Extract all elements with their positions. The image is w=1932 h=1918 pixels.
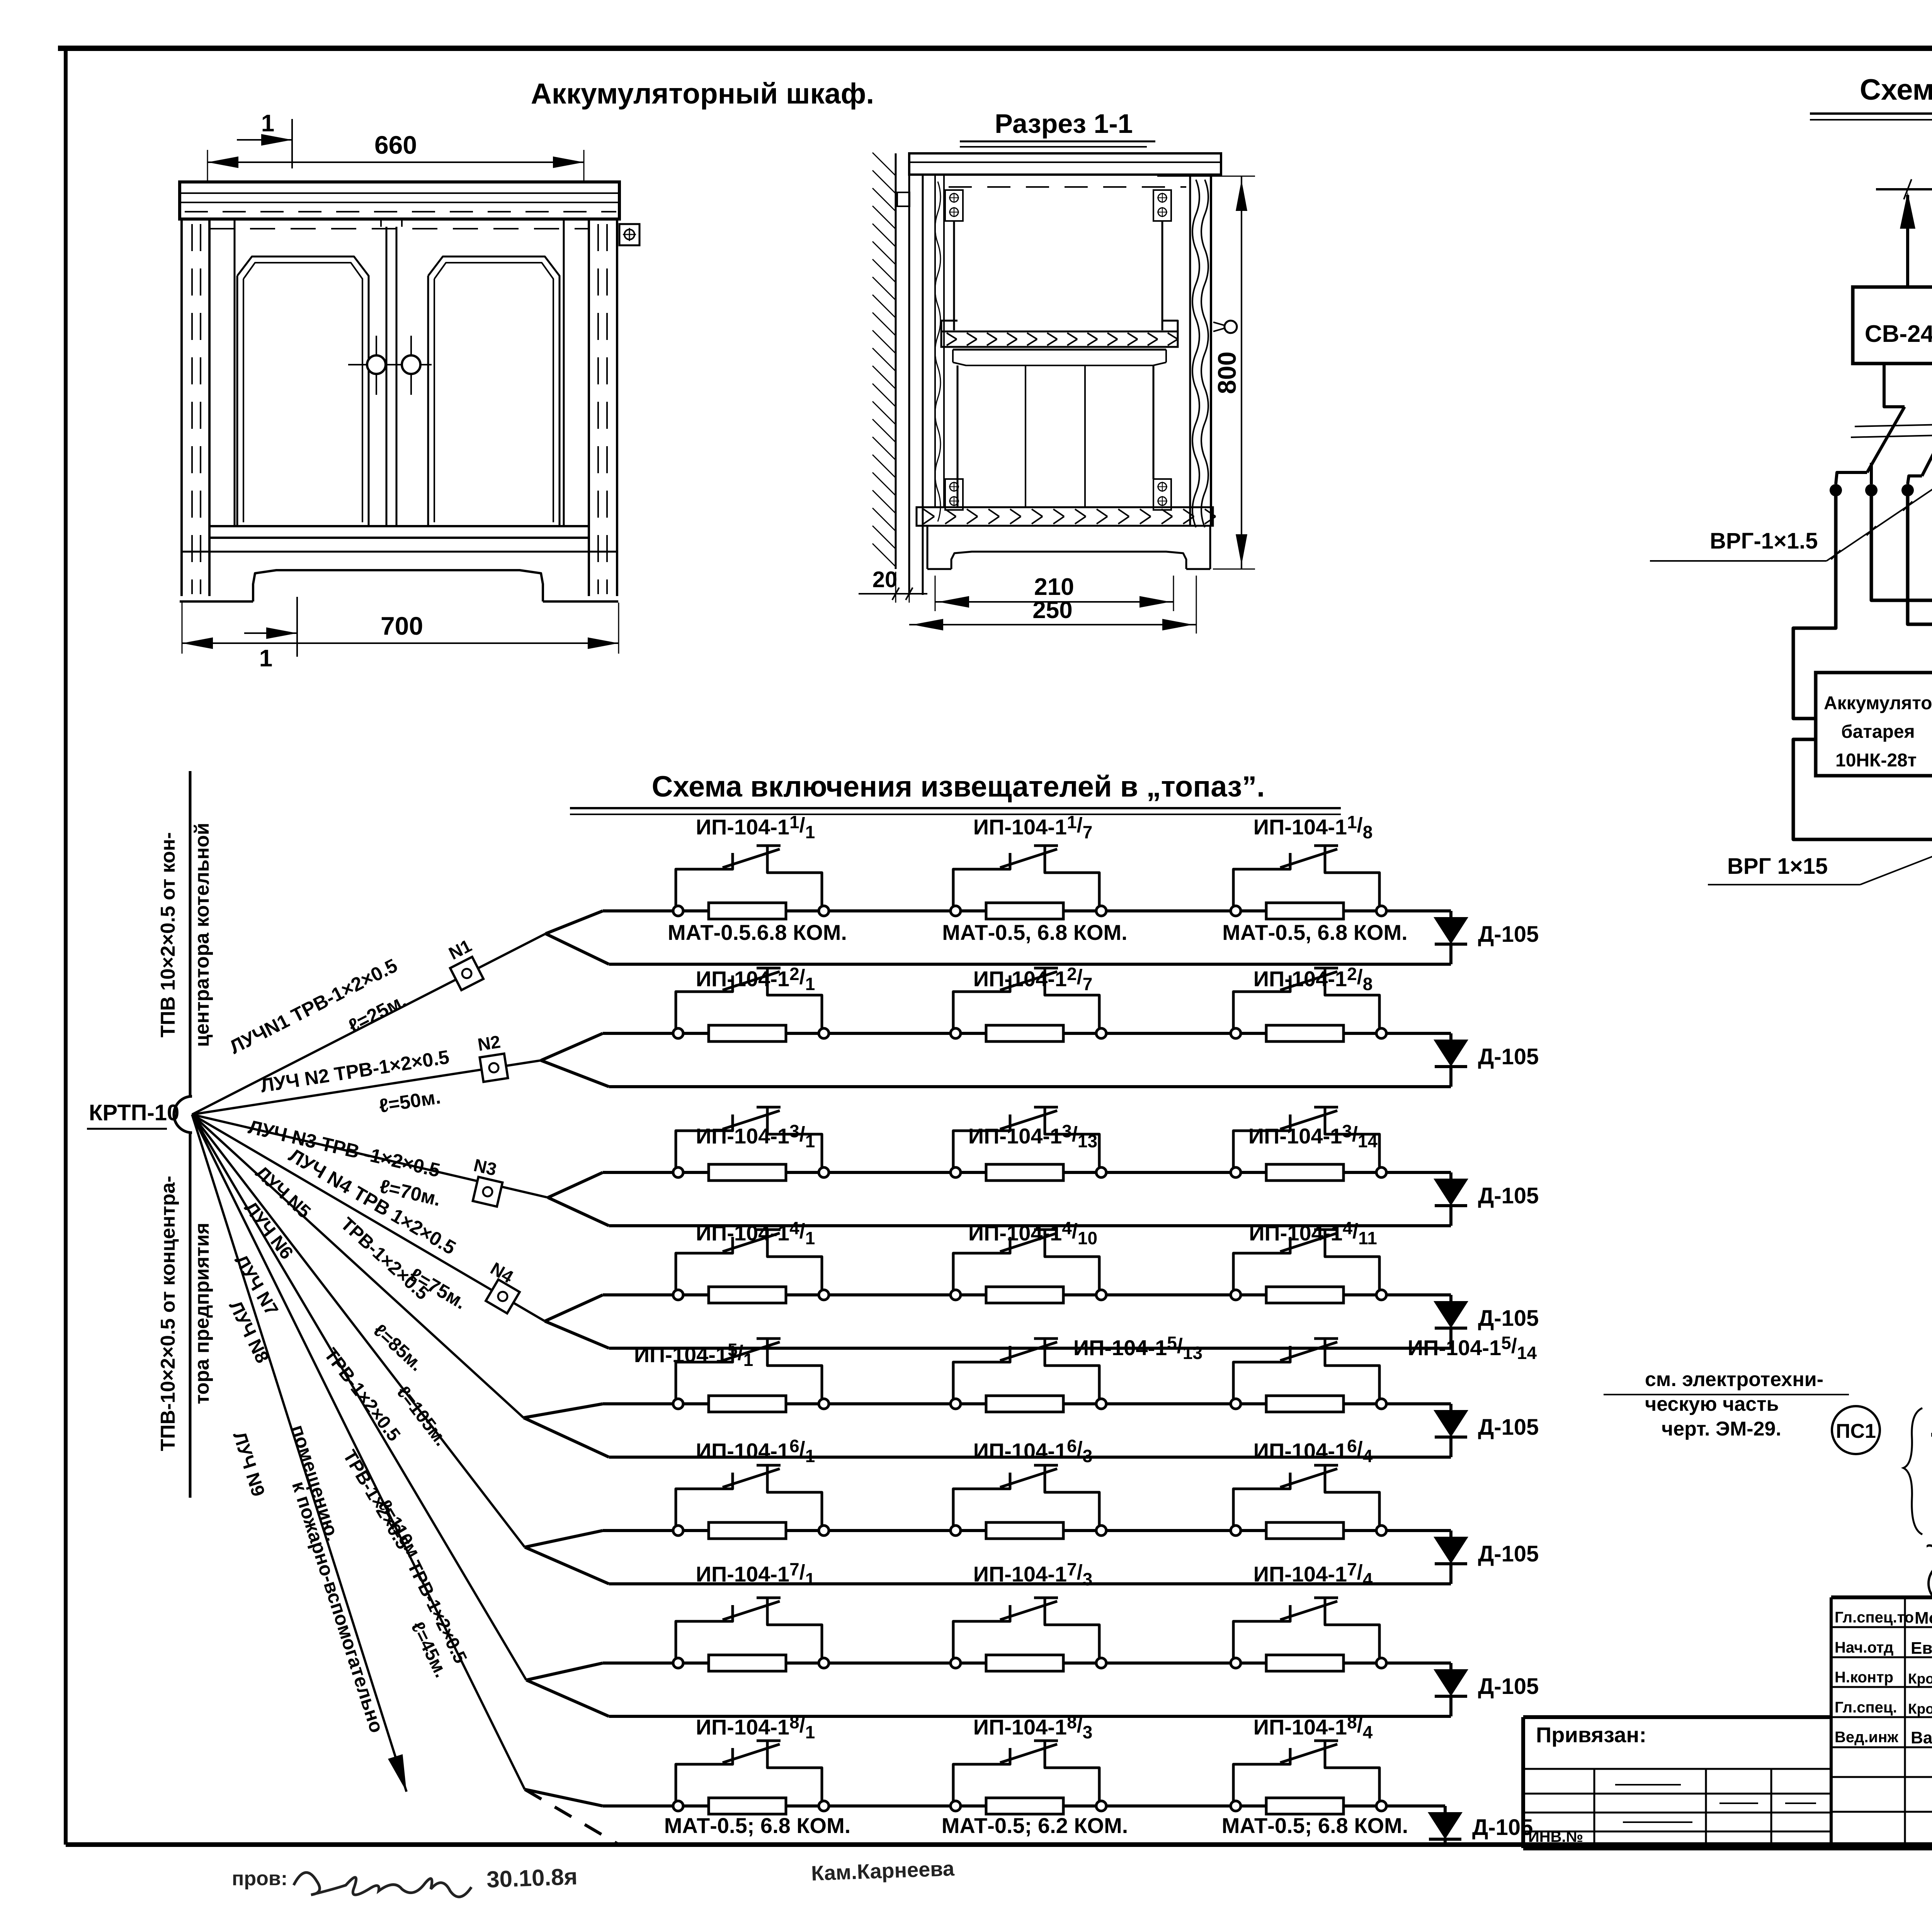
resistor МАТ-0.5 6.8кОм (loop 8 group 2) (986, 1798, 1063, 1814)
dimension 250 (909, 576, 1196, 634)
detector loop 3: return wire (609, 1224, 1451, 1227)
cabinet front view: top cap (180, 182, 619, 219)
svg-text:Разрез 1-1: Разрез 1-1 (995, 109, 1133, 139)
junction box N3 (473, 1177, 503, 1207)
detector ИП-104-1 1/1 contact group (673, 846, 829, 916)
svg-text:МАТ-0.5; 6.8 КОМ.: МАТ-0.5; 6.8 КОМ. (664, 1813, 851, 1838)
detector ИП-104-1 7/1 contact group (673, 1598, 829, 1668)
label ТПВ 10х2х0.5 от концентратора котельной (157, 823, 213, 1047)
detector loop 7: return wire (609, 1715, 1451, 1718)
detector ИП-104-1 6/1 contact group (673, 1465, 829, 1536)
ray wire ЛУЧ N5 (192, 1114, 524, 1418)
dimension 210 (935, 574, 1173, 611)
svg-text:Д-105: Д-105 (1478, 1044, 1539, 1069)
resistor МАТ-0.5 6.8кОм (loop 5 group 3) (1266, 1396, 1344, 1412)
resistor МАТ-0.5 6.8кОм (loop 5 group 1) (709, 1396, 786, 1412)
diode Д-105 (loop 7) (1434, 1663, 1539, 1716)
detector loop 3 (ЛУЧ N3): top wire (603, 1171, 1451, 1174)
brace ПС1 group (1903, 1408, 1922, 1534)
svg-text:10НК-28т: 10НК-28т (1835, 750, 1917, 771)
AC 220V supply bus (1876, 188, 1932, 190)
node: SA1 contact 3 (1901, 484, 1914, 496)
svg-text:ТПВ-10×2×0.5 от концентра-: ТПВ-10×2×0.5 от концентра- (157, 1176, 179, 1451)
svg-text:Д-105: Д-105 (1478, 1183, 1539, 1208)
svg-text:ТПВ 10×2×0.5 от кон-: ТПВ 10×2×0.5 от кон- (157, 832, 179, 1038)
title: Схема кабельных соединений топаз (1810, 73, 1932, 120)
resistor МАТ-0.5 6.8кОм (loop 1 group 2) (986, 903, 1063, 919)
label к пожарно-вспомогательному помещению (287, 1422, 388, 1736)
resistor МАТ-0.5 6.8кОм (loop 3 group 3) (1266, 1164, 1344, 1181)
box: rectifier СВ-24-9 (1853, 287, 1932, 364)
detector loop 5 (ЛУЧ N5): top wire (603, 1402, 1451, 1405)
dimension 20 (wall gap) (859, 567, 927, 603)
wire: GB1 left to lower switch contact 1 (1793, 739, 1932, 857)
svg-text:СВ-24-9: СВ-24-9 (1865, 321, 1932, 347)
detector loop 8 (ЛУЧ N8): top wire (603, 1804, 1445, 1808)
section 1-1: middle shelf (hatched) (941, 321, 1178, 347)
svg-text:Д-105: Д-105 (1478, 1306, 1539, 1331)
svg-text:Привязан:: Привязан: (1536, 1723, 1646, 1747)
wire: contact2 to battery GB2 plus (1871, 496, 1932, 719)
ray arrow ЛУЧ N9 to fire auxiliary room (192, 1114, 406, 1792)
detector ИП-104-1 7/3 contact group (951, 1598, 1106, 1668)
svg-text:20: 20 (872, 567, 898, 592)
detector loop 7 (ЛУЧ N7): top wire (603, 1661, 1451, 1665)
detector ИП-104-1 5/1 contact group (673, 1339, 829, 1409)
detector loop 6: fork from ray (525, 1531, 609, 1584)
detector ИП-104-1 8/4 contact group (1231, 1741, 1386, 1811)
svg-text:Варсуль: Варсуль (1911, 1728, 1932, 1747)
node: SA1 contact 2 (1865, 484, 1878, 496)
svg-text:Схема кабельных соединений „то: Схема кабельных соединений „топаз” (1860, 73, 1932, 106)
detector ИП-104-1 8/1 contact group (673, 1741, 829, 1811)
junction box N1 (450, 957, 483, 990)
svg-text:Д-105: Д-105 (1478, 1541, 1539, 1566)
section 1-1: door knob (1213, 321, 1237, 333)
node: SA1 contact 1 (1830, 484, 1842, 496)
section 1-1: apron and legs (927, 526, 1210, 569)
label ~220в and feed wires (1926, 1534, 1932, 1592)
trunk cable to boiler-house concentrator (189, 771, 192, 1096)
cabinet front view: left door panel (237, 257, 369, 526)
ray wire ЛУЧ N4 (192, 1114, 545, 1321)
detector ИП-104-1 4/10 contact group (951, 1230, 1106, 1300)
ray wire ЛУЧ N1 (192, 934, 546, 1114)
resistor МАТ-0.5 6.8кОм (loop 2 group 2) (986, 1025, 1063, 1041)
svg-text:Д-105: Д-105 (1478, 1415, 1539, 1440)
resistor МАТ-0.5 6.8кОм (loop 4 group 1) (709, 1287, 786, 1303)
cabinet front view: right door panel (428, 257, 560, 526)
title: Схема включения извещателей в топаз (570, 770, 1341, 814)
svg-text:660: 660 (374, 131, 417, 159)
svg-text:Мороз: Мороз (1915, 1609, 1932, 1627)
changeover switch SA1: right pole (1908, 364, 1932, 484)
resistor МАТ-0.5 6.8кОм (loop 6 group 3) (1266, 1522, 1344, 1539)
changeover switch SA1: left pole (1836, 364, 1905, 484)
detector loop 6: return wire (609, 1582, 1451, 1585)
resistor МАТ-0.5 6.8кОм (loop 6 group 1) (709, 1522, 786, 1539)
bus tap tick at СВ-24-9 feeder (1904, 179, 1912, 199)
junction box N2 (480, 1053, 508, 1082)
detector ИП-104-1 3/14 contact group (1231, 1107, 1386, 1177)
cabinet front view: door handles (348, 336, 432, 395)
detector ИП-104-1 4/11 contact group (1231, 1230, 1386, 1300)
svg-text:N2: N2 (476, 1031, 502, 1055)
svg-text:МАТ-0.5; 6.8 КОМ.: МАТ-0.5; 6.8 КОМ. (1222, 1813, 1408, 1838)
svg-text:Н.контр: Н.контр (1835, 1669, 1893, 1686)
detector ИП-104-1 6/4 contact group (1231, 1465, 1386, 1536)
svg-text:Гл.спец.то: Гл.спец.то (1835, 1609, 1914, 1626)
detector ИП-104-1 7/4 contact group (1231, 1598, 1386, 1668)
section 1-1: wall hatching (872, 153, 896, 569)
resistor МАТ-0.5 6.8кОм (loop 3 group 2) (986, 1164, 1063, 1181)
detector loop 5: fork from ray (524, 1404, 609, 1457)
resistor МАТ-0.5 6.8кОм (loop 7 group 2) (986, 1655, 1063, 1671)
diode Д-105 (loop 5) (1434, 1404, 1539, 1457)
title block: привязан box grid (1523, 1723, 1831, 1848)
detector loop 4 (ЛУЧ N4): top wire (603, 1293, 1451, 1296)
svg-text:батарея: батарея (1841, 722, 1915, 742)
wire: contact3 to battery GB1 minus (1908, 496, 1932, 719)
cabinet front view: side posts (182, 219, 617, 596)
title block: outer border (1523, 1597, 1932, 1848)
section 1-1: wood grain waves (935, 180, 1208, 527)
svg-text:ПС1: ПС1 (1836, 1420, 1876, 1442)
dimension 660 (cabinet top) (207, 131, 584, 182)
detector ИП-104-1 4/1 contact group (673, 1230, 829, 1300)
wire ПС1 to terminal 15 (1931, 1433, 1932, 1437)
checker signature пров (232, 1864, 578, 1897)
detector loop 2: return wire (609, 1085, 1451, 1088)
detector loop 2 (ЛУЧ N2): top wire (603, 1032, 1451, 1035)
label ТПВ-10х2х0.5 от концентратора предприятия (157, 1176, 213, 1451)
cabinet front view: wall clip (619, 224, 639, 245)
detector loop 4: return wire (609, 1347, 1451, 1350)
note см. электротехническую часть черт. ЭМ-29 (1604, 1368, 1849, 1440)
detector ИП-104-1 3/1 contact group (673, 1107, 829, 1177)
resistor МАТ-0.5 6.8кОм (loop 7 group 1) (709, 1655, 786, 1671)
svg-text:1: 1 (261, 110, 274, 137)
svg-text:ВРГ-1×1.5: ВРГ-1×1.5 (1710, 528, 1818, 554)
detector ИП-104-1 2/8 contact group (1231, 968, 1386, 1038)
section 1-1: back panel (897, 158, 923, 595)
svg-text:Евтушенко: Евтушенко (1911, 1639, 1932, 1658)
svg-text:~220в: ~220в (1926, 1534, 1932, 1559)
detector loop 2: fork from ray (541, 1033, 609, 1087)
detector loop 4: fork from ray (545, 1295, 609, 1348)
svg-text:Вед.инж: Вед.инж (1835, 1729, 1898, 1746)
svg-text:см. электротехни-: см. электротехни- (1645, 1368, 1823, 1391)
detector loop 8: return wire (609, 1843, 1445, 1846)
svg-text:тора предприятия: тора предприятия (191, 1223, 213, 1404)
resistor МАТ-0.5 6.8кОм (loop 8 group 1) (709, 1798, 786, 1814)
dimension 700 (cabinet bottom) (182, 603, 619, 654)
section 1-1: bottom rail (hatched) (917, 507, 1216, 526)
detector loop 3: fork from ray (548, 1172, 609, 1226)
section 1-1: top cap (909, 153, 1221, 175)
svg-text:1: 1 (259, 645, 272, 672)
section 1-1: body sides (923, 175, 1211, 526)
detector ИП-104-1 3/13 contact group (951, 1107, 1106, 1177)
detector ИП-104-1 1/8 contact group (1231, 846, 1386, 916)
svg-text:МАТ-0.5, 6.8 КОМ.: МАТ-0.5, 6.8 КОМ. (942, 920, 1127, 945)
ray wire ЛУЧ N7 (192, 1114, 526, 1680)
detector ИП-104-1 1/7 contact group (951, 846, 1106, 916)
trunk cable to factory concentrator (189, 1134, 192, 1498)
diode Д-105 (loop 8) (1428, 1806, 1533, 1844)
concentrator КРТП-10 node (87, 1096, 192, 1133)
open contact stub 2 (1870, 463, 1873, 484)
svg-text:30.10.8я: 30.10.8я (486, 1864, 578, 1893)
detector ИП-104-1 2/1 contact group (673, 968, 829, 1038)
detector loop 1: return wire (609, 963, 1451, 966)
resistor МАТ-0.5 6.8кОм (loop 5 group 2) (986, 1396, 1063, 1412)
svg-text:250: 250 (1032, 597, 1072, 623)
diode Д-105 (loop 6) (1434, 1531, 1539, 1584)
section mark 1 (bottom) (244, 597, 297, 672)
svg-text:МАТ-0.5, 6.8 КОМ.: МАТ-0.5, 6.8 КОМ. (1222, 920, 1407, 945)
battery GB1: Аккумуляторная батарея 10НК-28т (1816, 673, 1932, 776)
circle ПС1 (1832, 1406, 1880, 1454)
resistor МАТ-0.5 6.8кОм (loop 1 group 3) (1266, 903, 1344, 919)
ray wire ЛУЧ N8 (192, 1114, 525, 1789)
resistor МАТ-0.5 6.8кОм (loop 7 group 3) (1266, 1655, 1344, 1671)
resistor МАТ-0.5 6.8кОм (loop 1 group 1) (709, 903, 786, 919)
detector loop 5: return wire (609, 1456, 1451, 1459)
svg-text:Схема включения извещателей: Схема включения извещателей в „топаз”. (652, 770, 1265, 803)
detector loop 1 (ЛУЧ N1): top wire (603, 909, 1451, 912)
detector loop 8: fork from ray (525, 1789, 618, 1844)
svg-text:Гл.спец.: Гл.спец. (1835, 1699, 1897, 1716)
cable label ВРГ-1х1.5 (left) (1650, 478, 1932, 561)
section mark 1 (top) (237, 110, 292, 168)
resistor МАТ-0.5 6.8кОм (loop 4 group 2) (986, 1287, 1063, 1303)
svg-text:800: 800 (1213, 352, 1241, 394)
section 1-1: lower shelf slat (953, 350, 1166, 365)
svg-text:Кростошевский: Кростошевский (1908, 1671, 1932, 1687)
svg-text:МАТ-0.5; 6.2 КОМ.: МАТ-0.5; 6.2 КОМ. (942, 1813, 1128, 1838)
svg-text:ческую часть: ческую часть (1645, 1393, 1779, 1415)
resistor МАТ-0.5 6.8кОм (loop 4 group 3) (1266, 1287, 1344, 1303)
resistor МАТ-0.5 6.8кОм (loop 2 group 1) (709, 1025, 786, 1041)
svg-text:ИНВ.№: ИНВ.№ (1528, 1828, 1583, 1845)
title block: signature table (1831, 1597, 1932, 1848)
section 1-1: mounting plates with screws (945, 190, 963, 221)
detector loop 1: fork from ray (546, 911, 609, 964)
feeder arrow to СВ-24-9 (1900, 192, 1915, 286)
resistor МАТ-0.5 6.8кОм (loop 2 group 3) (1266, 1025, 1344, 1041)
detector ИП-104-1 6/3 contact group (951, 1465, 1106, 1536)
svg-text:Кростошевский: Кростошевский (1908, 1701, 1932, 1717)
section 1-1: lower slats (957, 365, 1153, 507)
svg-text:Д-105: Д-105 (1478, 922, 1539, 947)
svg-text:МАТ-0.5.6.8 КОМ.: МАТ-0.5.6.8 КОМ. (668, 920, 847, 945)
svg-text:Нач.отд: Нач.отд (1835, 1639, 1893, 1656)
detector ИП-104-1 8/3 contact group (951, 1741, 1106, 1811)
ray wire ЛУЧ N3 (192, 1114, 548, 1198)
svg-text:Д-105: Д-105 (1478, 1674, 1539, 1699)
svg-text:КРТП-10: КРТП-10 (89, 1100, 179, 1125)
section 1-1: dashed top line (949, 186, 1186, 188)
circle Н2 (1929, 1562, 1932, 1605)
detector loop 7: fork from ray (526, 1663, 609, 1716)
resistor МАТ-0.5 6.8кОм (loop 3 group 1) (709, 1164, 786, 1181)
cable label ВРГ 1х15 (battery circuit) (1708, 798, 1932, 885)
ray wire ЛУЧ N6 (192, 1114, 525, 1547)
cabinet front view: door frame (209, 219, 589, 526)
diode Д-105 (loop 2) (1434, 1033, 1539, 1087)
wire: contact1 to battery GB1 plus (1793, 496, 1836, 719)
diode Д-105 (loop 3) (1434, 1172, 1539, 1226)
detector ИП-104-1 2/7 contact group (951, 968, 1106, 1038)
detector loop 6 (ЛУЧ N6): top wire (603, 1529, 1451, 1532)
resistor МАТ-0.5 6.8кОм (loop 6 group 2) (986, 1522, 1063, 1539)
detector ИП-104-1 5/14 contact group (1231, 1339, 1386, 1409)
diode Д-105 (loop 1) (1434, 911, 1539, 964)
title: Разрез 1-1 (960, 109, 1155, 147)
svg-text:ВРГ 1×15: ВРГ 1×15 (1727, 854, 1828, 879)
switch SA1 coupling lines (1851, 423, 1932, 437)
diode Д-105 (loop 4) (1434, 1295, 1539, 1348)
section 1-1: interior verticals (954, 221, 1162, 330)
cabinet front view: bottom rail and apron (180, 526, 618, 601)
svg-text:Аккумуляторный шкаф.: Аккумуляторный шкаф. (531, 77, 874, 110)
svg-text:черт. ЭМ-29.: черт. ЭМ-29. (1662, 1418, 1781, 1440)
svg-text:пров:: пров: (232, 1867, 287, 1890)
resistor МАТ-0.5 6.8кОм (loop 8 group 3) (1266, 1798, 1344, 1814)
detector ИП-104-1 5/13 contact group (951, 1339, 1106, 1409)
svg-text:центратора котельной: центратора котельной (191, 823, 213, 1047)
svg-text:210: 210 (1034, 574, 1074, 600)
junction box N4 (486, 1279, 520, 1313)
svg-text:Аккумуляторн.: Аккумуляторн. (1824, 693, 1932, 714)
dimension 800 (section height) (1157, 176, 1255, 569)
ray wire ЛУЧ N2 (192, 1060, 541, 1114)
svg-text:700: 700 (381, 612, 423, 640)
